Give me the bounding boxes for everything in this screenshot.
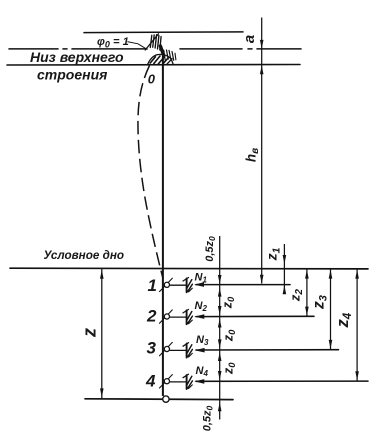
svg-text:z0: z0 xyxy=(221,362,238,375)
svg-text:a: a xyxy=(241,35,258,43)
svg-text:строения: строения xyxy=(37,67,107,83)
svg-text:N3: N3 xyxy=(196,334,209,347)
svg-text:z: z xyxy=(80,328,100,338)
svg-text:N1: N1 xyxy=(195,272,208,285)
svg-text:hв: hв xyxy=(244,148,262,162)
svg-text:φ0 = 1: φ0 = 1 xyxy=(97,36,129,50)
svg-text:Низ верхнего: Низ верхнего xyxy=(30,49,124,65)
svg-text:0: 0 xyxy=(148,72,156,87)
svg-text:0,5z0: 0,5z0 xyxy=(204,236,217,262)
svg-text:z0: z0 xyxy=(221,296,238,309)
svg-text:0,5z0: 0,5z0 xyxy=(202,405,215,431)
svg-text:N2: N2 xyxy=(195,300,208,313)
svg-text:Условное дно: Условное дно xyxy=(44,249,125,262)
svg-text:z2: z2 xyxy=(288,289,306,303)
svg-text:z0: z0 xyxy=(221,329,238,342)
svg-text:z3: z3 xyxy=(311,295,330,310)
svg-text:N4: N4 xyxy=(196,365,209,378)
svg-text:3: 3 xyxy=(147,339,157,358)
svg-text:z4: z4 xyxy=(334,312,354,328)
svg-text:z1: z1 xyxy=(264,247,283,261)
svg-text:4: 4 xyxy=(145,372,156,391)
svg-text:1: 1 xyxy=(148,276,157,295)
svg-text:2: 2 xyxy=(146,307,157,326)
